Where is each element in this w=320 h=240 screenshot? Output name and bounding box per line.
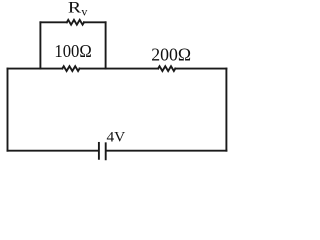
wire: top wire with resistor zigzags [8,68,63,70]
svg-text:R: R [68,0,82,17]
battery plate left [98,143,100,159]
wire: top middle segment [80,68,159,70]
wire: parallel box left vertical [39,22,41,68]
wire: main loop right side [225,69,227,151]
wire: parallel box top left segment [40,21,66,23]
wire: parallel box top right segment [84,21,106,23]
battery plate right [105,143,107,159]
wire: main loop left side [7,69,9,151]
resistor Rv (zigzag) [67,20,84,25]
wire: parallel box right vertical [105,22,107,68]
wire: bottom left segment [8,150,98,152]
wire: top right segment [175,68,226,70]
wire: bottom right segment [107,150,227,152]
resistor 100ohm (zigzag) [62,66,79,71]
svg-text:200Ω: 200Ω [151,45,191,65]
svg-text:4V: 4V [107,129,126,145]
svg-text:100Ω: 100Ω [54,41,91,61]
resistor 200ohm (zigzag) [158,66,175,71]
svg-text:v: v [81,5,87,19]
